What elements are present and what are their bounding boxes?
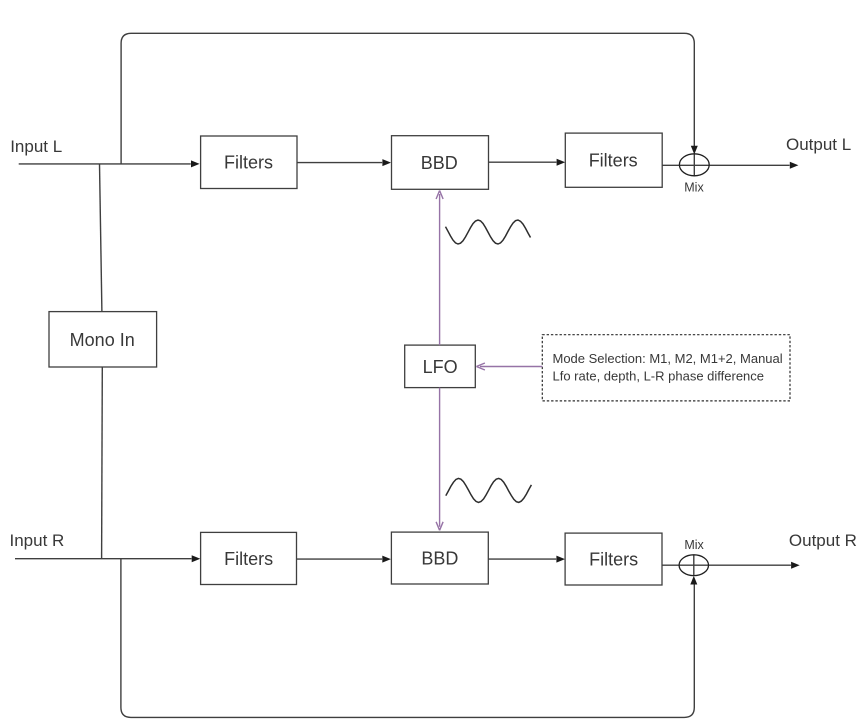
box: BBD R xyxy=(391,532,488,584)
svg-text:Lfo rate, depth, L-R phase dif: Lfo rate, depth, L-R phase difference xyxy=(553,368,765,383)
svg-text:Filters: Filters xyxy=(589,151,638,171)
wire: Filters R1 to BBD R xyxy=(297,558,383,560)
arrowhead into Filters R2 xyxy=(556,556,565,563)
svg-text:Mode Selection: M1, M2, M1+2,: Mode Selection: M1, M2, M1+2, Manual xyxy=(553,351,783,366)
svg-text:Filters: Filters xyxy=(224,152,273,172)
arrowhead at Output L xyxy=(790,162,799,169)
wire: Filters L1 to BBD L xyxy=(297,162,382,164)
wire: LFO modulation up to BBD L (purple) xyxy=(436,191,443,346)
waveform: LFO sine to BBD L xyxy=(446,220,531,244)
svg-text:Filters: Filters xyxy=(224,549,273,569)
wire: BBD L to Filters L2 xyxy=(489,161,557,163)
box: LFO xyxy=(405,345,476,388)
arrowhead into Mix R bottom xyxy=(690,576,697,585)
arrowhead into Filters R1 xyxy=(192,555,201,562)
wire: LFO modulation down to BBD R (purple) xyxy=(436,388,443,531)
wire: plus vertical inside Mix R xyxy=(693,555,695,576)
label: Output L xyxy=(786,135,851,154)
wire: bottom feedback loop from Input R tap to Mix R xyxy=(121,559,694,718)
wire: Mode Selection note to LFO (purple) xyxy=(476,363,542,370)
svg-text:Input R: Input R xyxy=(10,531,65,550)
box: Filters L1 xyxy=(201,136,297,189)
box: BBD L xyxy=(392,136,489,190)
wire: mono branch from Input L down to Mono In xyxy=(100,164,102,312)
svg-text:LFO: LFO xyxy=(423,357,458,377)
svg-text:Mono In: Mono In xyxy=(70,330,135,350)
svg-text:Mix: Mix xyxy=(684,180,704,194)
svg-text:BBD: BBD xyxy=(421,153,458,173)
svg-text:Input L: Input L xyxy=(10,137,62,156)
wire: Mono In down to Input R line xyxy=(101,367,104,559)
box: Filters L2 xyxy=(565,133,662,187)
box: Mono In xyxy=(49,312,157,367)
arrowhead into Filters L1 xyxy=(191,160,200,167)
wire: plus vertical inside Mix L xyxy=(693,154,695,176)
svg-text:Filters: Filters xyxy=(589,550,638,570)
summing node Mix R (circle with plus) xyxy=(679,538,708,576)
waveform: LFO sine to BBD R xyxy=(446,478,532,502)
svg-text:BBD: BBD xyxy=(421,549,458,569)
svg-text:Output L: Output L xyxy=(786,135,851,154)
svg-text:Mix: Mix xyxy=(684,538,704,552)
wire: top feedback loop from Input L tap to Mix L xyxy=(121,33,694,164)
box: Mode Selection dashed note xyxy=(542,335,790,401)
arrowhead into Mix L top xyxy=(691,146,698,155)
arrowhead into BBD L xyxy=(382,159,391,166)
summing node Mix L (circle with plus) xyxy=(679,154,709,195)
wire: BBD R to Filters R2 xyxy=(488,558,556,560)
arrowhead into BBD R xyxy=(382,556,391,563)
label: Output R xyxy=(789,531,857,550)
label: Input R xyxy=(10,531,65,550)
wire: Input L line xyxy=(19,163,191,165)
box: Filters R2 xyxy=(565,533,662,585)
box: Filters R1 xyxy=(201,532,297,584)
wire: Filters L2 through Mix L to Output L xyxy=(662,164,789,166)
arrowhead at Output R xyxy=(791,562,800,569)
svg-text:Output R: Output R xyxy=(789,531,857,550)
wire: Filters R2 through Mix R to Output R xyxy=(662,564,791,566)
arrowhead into Filters L2 xyxy=(557,159,566,166)
label: Input L xyxy=(10,137,62,156)
wire: Input R line xyxy=(15,558,192,560)
